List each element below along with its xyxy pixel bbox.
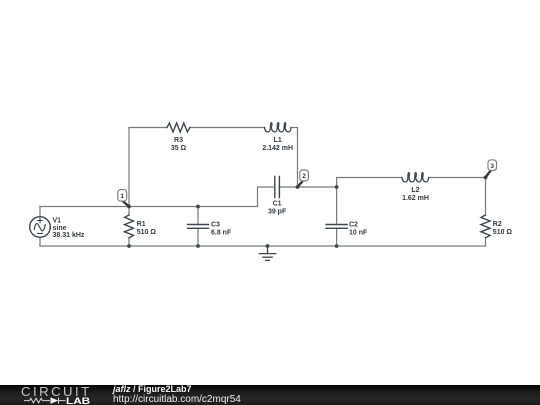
wire C3 bottom stub xyxy=(197,228,199,246)
svg-text:L2: L2 xyxy=(411,187,419,194)
node 2 bubble xyxy=(298,170,309,187)
svg-text:C1: C1 xyxy=(273,201,282,208)
wire L2 to node3 xyxy=(429,178,486,216)
junction R1 bottom xyxy=(127,244,131,248)
junction C2 bottom xyxy=(335,244,339,248)
junction node3 xyxy=(484,176,488,180)
resistor R3 xyxy=(167,123,190,132)
circuitlab logo xyxy=(0,385,110,405)
wire R2 bottom stub xyxy=(485,238,487,246)
voltage source V1 xyxy=(30,217,51,238)
resistor R2 xyxy=(481,215,490,238)
svg-text:2: 2 xyxy=(302,173,306,180)
svg-text:L1: L1 xyxy=(274,137,282,144)
node 3 bubble xyxy=(486,160,497,177)
junction ground xyxy=(266,244,270,248)
junction node2 xyxy=(296,185,300,189)
capacitor C2 xyxy=(326,225,347,229)
junction C3 top xyxy=(196,205,200,209)
wire C2 bottom stub xyxy=(336,228,338,246)
wire L1 to node2 drop xyxy=(291,128,298,188)
wire L2 branch riser xyxy=(337,178,402,188)
svg-text:LAB: LAB xyxy=(66,395,90,405)
inductor L2 xyxy=(402,173,429,182)
capacitor C3 xyxy=(188,225,209,229)
svg-text:R2: R2 xyxy=(493,221,502,228)
svg-text:sine: sine xyxy=(53,225,67,232)
svg-text:R1: R1 xyxy=(137,221,146,228)
wire C1 riser xyxy=(258,187,275,207)
ground xyxy=(259,246,276,260)
svg-text:R3: R3 xyxy=(174,137,183,144)
wire top rail from V1 to C1 riser xyxy=(40,206,258,208)
svg-text:38.31 kHz: 38.31 kHz xyxy=(53,232,85,239)
footer bar xyxy=(0,385,540,405)
wire R3 to L1 xyxy=(190,127,265,129)
resistor R1 xyxy=(125,215,134,238)
wire V1 stubs xyxy=(39,207,41,247)
wire C2 top stub xyxy=(336,187,338,225)
svg-text:510 Ω: 510 Ω xyxy=(493,229,513,236)
wire bottom rail xyxy=(40,245,486,247)
node 1 bubble xyxy=(118,190,129,207)
svg-text:39 pF: 39 pF xyxy=(268,209,287,216)
wire C1 right to node2 to C2 xyxy=(279,186,336,188)
junction C3 bottom xyxy=(196,244,200,248)
junction node1 xyxy=(127,205,131,209)
svg-text:1.62 mH: 1.62 mH xyxy=(402,195,429,202)
capacitor C1 xyxy=(275,177,280,198)
svg-text:10 nF: 10 nF xyxy=(349,229,368,236)
svg-text:2.142 mH: 2.142 mH xyxy=(262,145,293,152)
wire C3 top stub xyxy=(197,207,199,225)
svg-text:3: 3 xyxy=(490,163,494,170)
svg-text:35 Ω: 35 Ω xyxy=(171,145,187,152)
wire R1 stubs xyxy=(128,207,130,247)
svg-text:6.8 nF: 6.8 nF xyxy=(211,229,232,236)
svg-text:1: 1 xyxy=(120,193,124,200)
wire node1 riser to top branch xyxy=(128,128,130,207)
inductor L1 xyxy=(265,123,292,132)
svg-text:V1: V1 xyxy=(53,217,62,224)
svg-text:C2: C2 xyxy=(349,221,358,228)
svg-text:510 Ω: 510 Ω xyxy=(137,229,157,236)
wire top branch left of R3 xyxy=(129,127,167,129)
junction C2 top xyxy=(335,185,339,189)
svg-text:C3: C3 xyxy=(211,221,220,228)
